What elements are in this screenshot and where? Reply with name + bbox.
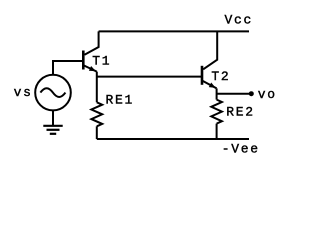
wire T2 emitter to RE2 <box>216 88 218 99</box>
svg-text:vo: vo <box>258 87 277 102</box>
svg-text:Vcc: Vcc <box>225 12 254 27</box>
wire T2 collector lead <box>203 31 217 69</box>
wire T1 emitter to RE1 <box>96 72 98 103</box>
svg-text:RE1: RE1 <box>106 93 135 108</box>
wire -Vee bottom rail <box>97 138 249 140</box>
transistor T1 <box>83 51 97 72</box>
svg-text:vs: vs <box>14 85 33 100</box>
wire T1 emitter to T2 base <box>97 76 201 78</box>
label -Vee <box>222 142 260 157</box>
svg-text:T2: T2 <box>211 69 230 84</box>
label vo <box>258 87 277 102</box>
resistor RE1 <box>91 102 102 126</box>
label vs <box>14 85 33 100</box>
node vo <box>249 91 254 96</box>
svg-text:T1: T1 <box>92 54 111 69</box>
label RE2 <box>226 105 255 120</box>
svg-text:RE2: RE2 <box>226 105 255 120</box>
wire RE2 to bottom rail <box>216 124 218 139</box>
voltage source vs <box>35 75 71 111</box>
wire vs to ground <box>52 110 54 126</box>
label T2 <box>211 69 230 84</box>
Vcc label <box>225 12 254 27</box>
svg-text:-Vee: -Vee <box>222 142 260 157</box>
wire T2 emitter to vo <box>217 93 250 95</box>
wire T1 collector lead <box>85 31 99 54</box>
wire vs to T1 base <box>53 61 82 75</box>
resistor RE2 <box>211 100 222 124</box>
label T1 <box>92 54 111 69</box>
transistor T2 <box>202 66 217 89</box>
wire RE1 to bottom rail <box>96 126 98 139</box>
ground <box>43 126 62 134</box>
wire Vcc top rail <box>99 30 249 32</box>
label RE1 <box>106 93 135 108</box>
